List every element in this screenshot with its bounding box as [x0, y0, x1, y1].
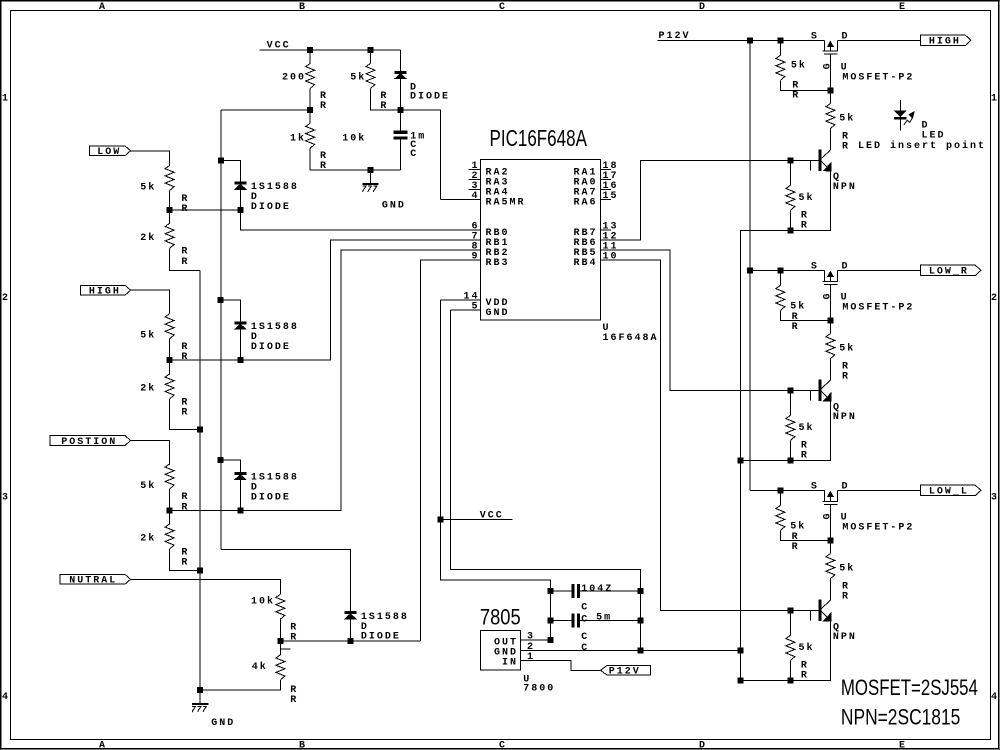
- svg-text:R: R: [181, 257, 189, 268]
- diode D DIODE (MCLR clamp to VCC): [400, 50, 402, 72]
- wire stage2 drain to connector: [838, 269, 921, 271]
- svg-text:2k: 2k: [140, 533, 156, 545]
- svg-text:IN: IN: [502, 658, 518, 669]
- connector LOW_L (output): [920, 485, 981, 495]
- svg-text:2: 2: [2, 293, 10, 304]
- transistor U MOSFET-P2 (LOW_R high-side switch): [823, 270, 825, 281]
- wire GND bottom of 1k and 1m: [310, 169, 400, 171]
- capacitor 1m C C (MCLR to GND): [400, 110, 402, 131]
- node POSTION divider junction: [167, 508, 172, 513]
- wire ground return bus (right): [739, 230, 741, 680]
- svg-text:LED insert point: LED insert point: [858, 140, 986, 152]
- wire stage3 drain to connector: [838, 489, 921, 491]
- node stage3 gate junction: [828, 538, 833, 543]
- svg-text:R: R: [290, 695, 298, 706]
- svg-text:4: 4: [472, 191, 480, 202]
- svg-text:5k: 5k: [140, 480, 156, 492]
- wire HIGH junction to RB1 (pin7 column): [170, 240, 481, 360]
- wire 4k bottom to ground: [200, 680, 280, 690]
- node A junction dot: [308, 108, 313, 113]
- svg-text:1: 1: [991, 94, 999, 105]
- wire LOW junction to diode D1: [170, 209, 241, 211]
- svg-text:3: 3: [991, 493, 999, 504]
- diode D4 1S1588 (NUTRAL clamp): [345, 612, 356, 614]
- resistor 2k (POSTION divider lower): [169, 510, 171, 524]
- wire POSTION junction to RB2 (pin8 column): [170, 250, 481, 510]
- svg-text:R: R: [801, 670, 809, 681]
- connector LOW (input): [89, 146, 130, 156]
- wire stage1 gate column: [829, 54, 831, 90]
- wire stage2 emitter to ground bus: [740, 401, 830, 461]
- diode D LED (insert point marker): [899, 100, 901, 131]
- transistor Q NPN (stage2 gate driver): [819, 380, 821, 401]
- connector LOW_R (output): [920, 265, 981, 275]
- svg-text:S: S: [811, 31, 819, 42]
- node ground bus stage3 tap: [738, 678, 743, 683]
- node bus-diode2 junction: [218, 298, 223, 303]
- resistor 5k R R (stage2 base pulldown): [789, 390, 791, 415]
- capacitor 5m C C: [551, 619, 572, 621]
- node stage1 base junction: [788, 158, 793, 163]
- resistor 5k R R (stage3 gate series): [829, 540, 831, 553]
- wire NUTRAL input to divider: [131, 579, 281, 594]
- svg-text:MOSFET=2SJ554: MOSFET=2SJ554: [841, 676, 978, 701]
- svg-text:5k: 5k: [839, 562, 855, 574]
- wire POSTION divider bottom to ground rail: [170, 549, 201, 571]
- svg-text:R: R: [380, 101, 388, 112]
- text NPN=2SC1815: [841, 706, 960, 730]
- node stage2 source-pullup tap: [778, 268, 783, 273]
- svg-text:MOSFET-P2: MOSFET-P2: [842, 523, 914, 534]
- svg-text:5k: 5k: [790, 300, 806, 312]
- svg-text:C: C: [581, 632, 589, 643]
- wire stage2 gate column: [829, 284, 831, 320]
- wire left ground rail vertical: [199, 270, 201, 690]
- transistor U MOSFET-P2 (LOW_L high-side switch): [823, 490, 825, 501]
- svg-text:D: D: [699, 741, 707, 750]
- resistor 5k R R (stage1 gate series): [829, 90, 831, 103]
- svg-text:RA5MR: RA5MR: [486, 197, 526, 208]
- svg-text:E: E: [899, 2, 907, 13]
- svg-text:D: D: [699, 2, 707, 13]
- svg-text:DIODE: DIODE: [410, 91, 450, 102]
- wire HIGH input to divider: [131, 290, 170, 314]
- wire stage3 emitter to ground bus: [740, 621, 830, 681]
- resistor 5k R R (stage1 base pulldown): [789, 160, 791, 185]
- node ground rail POSTION tap: [198, 568, 203, 573]
- svg-text:5k: 5k: [799, 422, 815, 434]
- svg-text:R: R: [792, 322, 800, 333]
- diode D3 1S1588 (POSTION clamp): [235, 473, 246, 475]
- resistor 5k R R (stage1 gate pull-up): [779, 40, 781, 55]
- resistor 5k (LOW divider upper): [165, 166, 174, 191]
- pin 1 IN wire: [521, 660, 601, 670]
- svg-text:RA6: RA6: [574, 197, 598, 208]
- svg-text:NPN: NPN: [833, 412, 857, 423]
- svg-text:C: C: [581, 602, 589, 613]
- node stage3 pulldown-emitter tap: [788, 678, 793, 683]
- pin 13 RB7: [600, 229, 611, 231]
- svg-text:9: 9: [472, 252, 480, 263]
- pin 3 RA4: [469, 189, 481, 191]
- node VCC-R5k junction: [368, 47, 373, 52]
- node ground bus regulator tap: [738, 648, 743, 653]
- text MOSFET=2SJ554: [841, 676, 978, 701]
- node diode1 anode dot: [238, 208, 243, 213]
- svg-text:C: C: [581, 614, 589, 625]
- svg-text:C: C: [581, 643, 589, 654]
- wire MCLR node to RA5 corner: [401, 110, 441, 199]
- svg-text:NPN=2SC1815: NPN=2SC1815: [841, 706, 960, 730]
- svg-text:A: A: [99, 2, 107, 13]
- wire diode1/RB0 down-corner: [240, 210, 480, 230]
- svg-text:1k: 1k: [290, 132, 306, 144]
- pin 1 RA2: [469, 169, 481, 171]
- node 104Z left dot: [548, 588, 553, 593]
- svg-text:DIODE: DIODE: [251, 342, 291, 353]
- svg-text:10: 10: [603, 252, 619, 263]
- svg-text:NPN: NPN: [833, 632, 857, 643]
- svg-text:B: B: [299, 741, 307, 750]
- svg-text:R: R: [290, 633, 298, 644]
- IC U 7800 (7805 regulator): [480, 606, 521, 630]
- svg-text:RB3: RB3: [486, 258, 510, 269]
- svg-text:2k: 2k: [140, 232, 156, 244]
- node GND-cap column dot: [638, 648, 643, 653]
- svg-text:G: G: [823, 293, 834, 299]
- svg-text:POSTION: POSTION: [61, 437, 117, 448]
- wire stage2 source rail: [750, 269, 825, 271]
- svg-text:5k: 5k: [140, 330, 156, 342]
- node diode2 anode dot: [238, 358, 243, 363]
- svg-text:5k: 5k: [799, 642, 815, 654]
- svg-text:LOW_L: LOW_L: [929, 487, 969, 498]
- pin 18 RA1: [600, 169, 611, 171]
- wire POSTION input to divider: [131, 441, 170, 464]
- connector POSTION (input): [50, 436, 131, 446]
- node 104Z right dot: [638, 588, 643, 593]
- svg-text:R: R: [842, 372, 850, 383]
- resistor 2k (LOW divider lower): [169, 210, 171, 223]
- wire VCC label stub: [441, 519, 513, 521]
- node LOW divider junction: [167, 208, 172, 213]
- pin 2 GND wire: [521, 649, 741, 651]
- svg-text:G: G: [823, 513, 834, 519]
- svg-text:R: R: [842, 592, 850, 603]
- wire NUTRAL junction to diode D4 and RB3: [280, 640, 350, 642]
- svg-text:10k: 10k: [342, 132, 366, 144]
- node ground bus stage2 tap: [738, 458, 743, 463]
- wire HIGH divider bottom to ground rail: [170, 399, 201, 430]
- pin 16 RA7: [600, 189, 611, 191]
- ground (bottom left): [198, 688, 203, 693]
- svg-text:2: 2: [991, 293, 999, 304]
- resistor 4k (NUTRAL divider lower): [279, 641, 281, 655]
- node stage1 pulldown-emitter tap: [788, 228, 793, 233]
- ground (top): [368, 167, 373, 172]
- pin 2 RA3: [469, 179, 481, 181]
- svg-text:HIGH: HIGH: [929, 37, 961, 48]
- connector P12V (input to regulator): [601, 665, 651, 675]
- svg-text:LOW: LOW: [97, 147, 121, 158]
- svg-text:RB4: RB4: [574, 258, 598, 269]
- pin 17 RA0: [600, 179, 611, 181]
- svg-text:PIC16F648A: PIC16F648A: [490, 127, 588, 152]
- svg-text:5k: 5k: [839, 342, 855, 354]
- pin 3 OUT wire: [521, 639, 551, 641]
- node diode4 anode dot: [348, 638, 353, 643]
- node ground rail HIGH tap: [198, 427, 203, 432]
- resistor 5k R R (stage2 gate pull-up): [779, 270, 781, 285]
- wire RB3 (pin9 column): [421, 260, 481, 641]
- transistor Q NPN (stage3 gate driver): [819, 600, 821, 621]
- node bus-diode3 junction: [218, 458, 223, 463]
- svg-text:5k: 5k: [350, 71, 366, 83]
- wire VCC top rail: [260, 49, 401, 51]
- svg-text:C: C: [499, 741, 507, 750]
- node stage1 gate junction: [828, 88, 833, 93]
- svg-text:B: B: [299, 2, 307, 13]
- wire stage3 gate column: [829, 504, 831, 540]
- resistor 5k R R (stage2 gate series): [829, 320, 831, 333]
- svg-text:R: R: [792, 91, 800, 102]
- node VCC-R200 junction: [308, 47, 313, 52]
- svg-text:R: R: [181, 408, 189, 419]
- svg-text:G: G: [823, 63, 834, 69]
- svg-text:2k: 2k: [140, 383, 156, 395]
- svg-text:5m: 5m: [596, 612, 612, 623]
- svg-text:7805: 7805: [480, 606, 521, 630]
- svg-text:104Z: 104Z: [581, 584, 613, 595]
- svg-text:P12V: P12V: [609, 667, 641, 678]
- node P12V bus tap: [747, 38, 752, 43]
- svg-text:GND: GND: [486, 308, 510, 319]
- resistor 2k (HIGH divider lower): [169, 360, 171, 374]
- wire RB5 to NPN Q2 base: [600, 250, 819, 390]
- wire LOW input to divider: [131, 151, 170, 166]
- svg-text:GND: GND: [382, 200, 406, 211]
- svg-text:5: 5: [472, 302, 480, 313]
- connector NUTRAL (input): [60, 574, 131, 584]
- diode D2 1S1588 (HIGH clamp): [235, 322, 246, 324]
- svg-text:S: S: [811, 481, 819, 492]
- svg-text:R: R: [181, 502, 189, 513]
- connector HIGH (output): [920, 35, 971, 45]
- connector HIGH (input): [81, 285, 131, 295]
- svg-text:GND: GND: [211, 718, 235, 729]
- pin tick 4k: [281, 648, 291, 650]
- svg-text:NPN: NPN: [833, 182, 857, 193]
- svg-text:3: 3: [2, 493, 10, 504]
- resistor 10k (NUTRAL divider upper): [276, 594, 285, 619]
- svg-text:C: C: [499, 2, 507, 13]
- svg-text:1: 1: [2, 94, 10, 105]
- node stage2 pulldown-emitter tap: [788, 458, 793, 463]
- svg-text:R: R: [792, 542, 800, 553]
- IC U PIC16F648A: [490, 127, 588, 152]
- svg-text:200: 200: [282, 72, 306, 83]
- wire RB4 to NPN Q3 base: [600, 260, 819, 610]
- svg-text:10k: 10k: [251, 595, 275, 607]
- wire LOW divider bottom to ground rail: [170, 248, 201, 270]
- diode D1 1S1588 (LOW clamp): [235, 182, 246, 184]
- svg-text:7800: 7800: [523, 684, 555, 695]
- svg-text:R: R: [181, 352, 189, 363]
- pin 14 VDD: [441, 299, 481, 301]
- wire bus to diode D1 top: [221, 160, 240, 182]
- wire stage1 drain to connector: [838, 39, 921, 41]
- resistor 5k (HIGH divider upper): [165, 314, 174, 339]
- node NUTRAL divider junction: [278, 638, 283, 643]
- svg-text:R: R: [181, 204, 189, 215]
- resistor 5k (VCC to MCLR node): [370, 50, 372, 64]
- node bus-diode1 junction: [219, 158, 224, 163]
- node regulator OUT dot: [548, 638, 553, 643]
- svg-text:A: A: [99, 741, 107, 750]
- svg-text:1: 1: [527, 652, 535, 663]
- svg-text:R: R: [842, 141, 850, 152]
- svg-text:DIODE: DIODE: [251, 492, 291, 503]
- wire bus to diode D3 top: [221, 460, 241, 473]
- node P12V stage2 tap: [747, 268, 752, 273]
- node HIGH divider junction: [167, 358, 172, 363]
- resistor 1k (node A to GND): [309, 110, 311, 123]
- svg-text:5k: 5k: [790, 520, 806, 532]
- svg-text:5k: 5k: [799, 192, 815, 204]
- node stage2 base junction: [788, 388, 793, 393]
- svg-text:E: E: [899, 741, 907, 750]
- transistor U MOSFET-P2 (HIGH high-side switch): [823, 40, 825, 51]
- transistor Q NPN (stage1 gate driver): [819, 150, 821, 171]
- wire node A bus vertical: [220, 110, 222, 549]
- resistor 5k (POSTION divider upper): [165, 464, 174, 489]
- node VDD-VCC label tap: [438, 517, 443, 522]
- svg-text:5k: 5k: [791, 60, 807, 72]
- svg-text:4: 4: [991, 692, 999, 703]
- svg-text:16F648A: 16F648A: [603, 333, 659, 344]
- svg-text:5k: 5k: [140, 181, 156, 193]
- svg-text:R: R: [801, 450, 809, 461]
- resistor 5k R R (stage3 base pulldown): [789, 610, 791, 635]
- wire GND pin5 to capacitor column: [451, 310, 641, 650]
- svg-text:DIODE: DIODE: [251, 202, 291, 213]
- pin 15 RA6: [600, 199, 611, 201]
- wire bus to diode D2 top: [221, 300, 241, 322]
- wire P12V top rail: [658, 39, 825, 41]
- svg-text:MOSFET-P2: MOSFET-P2: [842, 73, 914, 84]
- svg-text:MOSFET-P2: MOSFET-P2: [842, 303, 914, 314]
- node MCLR junction dot: [398, 108, 403, 113]
- svg-text:S: S: [811, 261, 819, 272]
- svg-text:5k: 5k: [839, 112, 855, 124]
- node stage3 source-pullup tap: [778, 488, 783, 493]
- node diode3 anode dot: [238, 508, 243, 513]
- node 5m right dot: [638, 618, 643, 623]
- wire bus bottom to diode D4 top: [221, 549, 350, 611]
- wire RB6 to NPN Q1 base: [600, 160, 819, 240]
- wire VDD to VCC net and regulator: [441, 300, 551, 640]
- svg-text:R: R: [320, 161, 328, 172]
- node stage2 gate junction: [828, 318, 833, 323]
- wire node A horizontal: [221, 109, 310, 111]
- pin 5 GND: [451, 309, 481, 311]
- svg-text:R: R: [320, 101, 328, 112]
- wire P12V bus vertical: [749, 40, 751, 490]
- node stage3 base junction: [788, 608, 793, 613]
- capacitor 104Z C C: [551, 590, 572, 592]
- svg-text:NUTRAL: NUTRAL: [69, 576, 117, 587]
- resistor 200 (VCC to node A): [309, 50, 311, 64]
- svg-text:C: C: [410, 149, 418, 160]
- svg-text:4k: 4k: [252, 661, 268, 673]
- svg-text:4: 4: [2, 692, 10, 703]
- node 5m left dot: [548, 618, 553, 623]
- svg-text:HIGH: HIGH: [89, 287, 121, 298]
- svg-text:R: R: [181, 558, 189, 569]
- wire stage1 emitter to ground bus: [740, 171, 830, 231]
- node stage1 source-pullup tap: [778, 38, 783, 43]
- pin 4 RA5MR: [441, 199, 481, 201]
- svg-text:R: R: [801, 220, 809, 231]
- wire stage3 source rail: [750, 489, 825, 491]
- resistor 5k R R (stage3 gate pull-up): [779, 490, 781, 505]
- svg-text:LOW_R: LOW_R: [929, 267, 969, 278]
- wire P12V bus to stage3 source: [750, 489, 825, 491]
- svg-text:15: 15: [603, 191, 619, 202]
